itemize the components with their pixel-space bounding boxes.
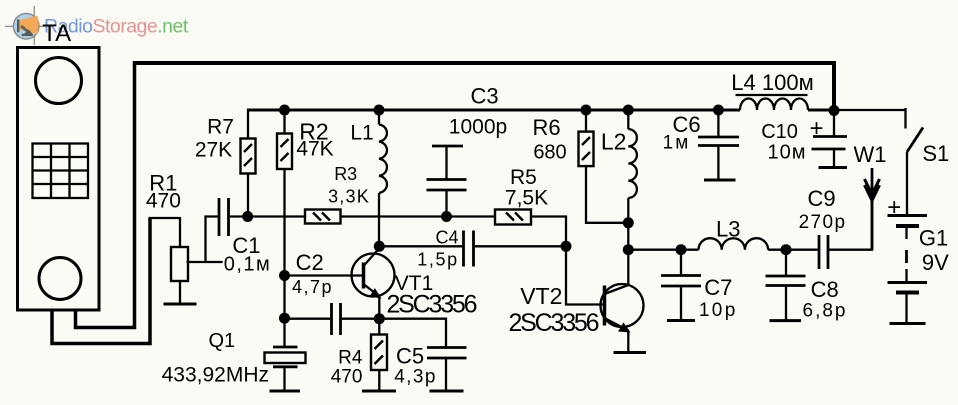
svg-text:27K: 27K <box>195 139 232 162</box>
svg-text:+: + <box>887 194 901 221</box>
capacitor C8 <box>766 250 806 321</box>
wire: R6 bottom to L2 column <box>586 166 628 223</box>
TA keypad grid <box>33 144 89 199</box>
logo orange wedge <box>19 16 39 34</box>
svg-text:C2: C2 <box>296 250 324 275</box>
capacitor C1 <box>219 198 229 236</box>
wire: L3 to C8 node <box>768 249 786 251</box>
logo base bar <box>17 19 19 32</box>
svg-text:470: 470 <box>146 190 181 213</box>
wire: R7 node to R3 <box>248 215 305 217</box>
svg-text:4,7p: 4,7p <box>292 277 333 297</box>
transistor VT1 <box>352 248 395 319</box>
wire: R3 to R5 <box>341 215 496 217</box>
ground C6 <box>704 179 736 182</box>
svg-text:R6: R6 <box>532 115 560 140</box>
inductor L2 <box>628 129 637 198</box>
switch S1 <box>906 108 924 216</box>
ground VT2 <box>614 351 647 354</box>
svg-text:W1: W1 <box>854 142 887 167</box>
wire: C7 node to L3 <box>681 249 699 251</box>
capacitor C7 <box>661 250 701 321</box>
wire: top rail to right column <box>133 63 834 110</box>
resistor R5 <box>495 210 531 225</box>
wire: +9V rail right of L4 <box>808 109 834 112</box>
svg-text:R4: R4 <box>338 347 363 368</box>
wire: C4 right <box>474 245 567 247</box>
capacitor C3 <box>427 146 467 217</box>
wire: C9 to antenna column <box>828 196 872 250</box>
wire: emitter node to C5 <box>379 319 446 348</box>
svg-text:7,5K: 7,5K <box>505 187 548 210</box>
svg-text:270p: 270p <box>799 212 847 233</box>
wire: R2 top lead <box>283 110 285 134</box>
ground C8 <box>770 319 802 322</box>
svg-text:R3: R3 <box>334 164 357 184</box>
wire: L2 bottom lead to VT2 collector <box>627 198 629 285</box>
resistor R1 <box>171 247 188 281</box>
wire: R7 top lead <box>247 109 249 139</box>
wire: crystal node to C2 <box>285 318 332 320</box>
svg-text:S1: S1 <box>922 141 949 166</box>
svg-text:C4: C4 <box>435 228 458 248</box>
svg-text:L4 100м: L4 100м <box>731 70 813 95</box>
resistor R6 <box>579 132 594 167</box>
node VT1 emitter <box>374 313 385 324</box>
capacitor C2 <box>332 303 341 335</box>
resistor R3 <box>305 210 341 224</box>
svg-text:L3: L3 <box>716 217 740 242</box>
ground R4 <box>362 390 396 393</box>
capacitor C5 <box>427 348 467 392</box>
logo circle <box>13 13 39 39</box>
wire: C2 to emitter node <box>341 318 380 320</box>
node VT1 base <box>279 270 290 281</box>
svg-text:Q1: Q1 <box>208 330 235 352</box>
svg-text:R7: R7 <box>207 116 234 139</box>
svg-text:+: + <box>809 115 823 142</box>
VT1 emitter arrow <box>370 288 382 299</box>
svg-text:680: 680 <box>533 142 566 164</box>
svg-text:C10: C10 <box>761 121 798 143</box>
node R6 top <box>581 105 592 116</box>
wire: R5 right down to C4 node <box>531 217 566 247</box>
svg-text:L2: L2 <box>601 129 627 155</box>
svg-text:VT2: VT2 <box>520 283 562 309</box>
ground C10 <box>819 166 848 169</box>
svg-text:433,92MHz: 433,92MHz <box>162 364 269 387</box>
svg-text:0,1м: 0,1м <box>224 254 272 276</box>
svg-text:1м: 1м <box>663 133 691 154</box>
node C4 R5 <box>561 241 572 252</box>
crystal Q1 <box>265 318 306 391</box>
wire: L1 top lead <box>378 110 380 125</box>
ground Q1 <box>270 390 301 393</box>
TA mouthpiece circle <box>39 258 81 300</box>
transistor VT2 <box>601 284 644 353</box>
node C8 top <box>781 244 792 255</box>
resistor R2 <box>277 134 292 170</box>
node L2 top <box>623 105 634 116</box>
wire: L1 bottom lead to VT1 collector node <box>378 193 380 246</box>
TA earpiece circle <box>36 58 82 104</box>
svg-text:C3: C3 <box>470 84 498 109</box>
wire: R1 bottom lead <box>179 281 181 304</box>
node VT1 collector <box>374 241 385 252</box>
inductor L3 <box>699 238 769 250</box>
node crystal top <box>279 313 290 324</box>
svg-text:2SC3356: 2SC3356 <box>508 309 598 337</box>
ground G1 <box>890 322 926 325</box>
battery G1 <box>888 216 928 324</box>
svg-text:C8: C8 <box>811 277 839 302</box>
node R7 bottom <box>242 211 253 222</box>
svg-text:C9: C9 <box>807 186 835 211</box>
capacitor C10 (polarized) <box>812 110 848 168</box>
node R2 top <box>279 105 290 116</box>
node L1 top <box>374 105 385 116</box>
svg-text:3,3K: 3,3K <box>328 187 370 207</box>
svg-text:9V: 9V <box>922 250 949 275</box>
node C6 top <box>713 105 724 116</box>
ground C5 <box>430 390 464 393</box>
ground R1 <box>164 303 197 306</box>
wire: R2 bottom lead down to crystal node <box>283 169 285 318</box>
wire: R1 top lead <box>179 217 181 247</box>
svg-text:10м: 10м <box>768 142 807 164</box>
node L4 right <box>829 105 840 116</box>
wire: C1 right to R7 node <box>228 215 248 217</box>
svg-text:2SC3356: 2SC3356 <box>386 291 476 319</box>
TA handset block <box>18 48 100 311</box>
svg-text:6,8p: 6,8p <box>803 301 848 322</box>
svg-text:L1: L1 <box>350 122 373 145</box>
resistor R4 <box>371 319 387 391</box>
svg-text:47K: 47K <box>296 138 333 161</box>
capacitor C6 <box>698 110 739 180</box>
resistor R7 <box>241 139 256 174</box>
wire: C4 left <box>379 245 463 247</box>
svg-text:470: 470 <box>331 367 363 388</box>
wire: C8 node to C9 <box>786 249 819 251</box>
logo arrow <box>21 26 29 32</box>
wire: to R1 top <box>149 217 181 219</box>
wire: VT2 node to C7 node <box>628 249 681 251</box>
capacitor C9 <box>819 235 828 269</box>
ground C7 <box>667 319 695 322</box>
wire: TA bottom loop to top rail <box>76 63 135 328</box>
svg-text:4,3p: 4,3p <box>394 367 437 388</box>
capacitor C4 <box>464 231 474 267</box>
svg-text:TA: TA <box>42 20 71 47</box>
svg-text:C7: C7 <box>704 275 732 300</box>
node R6 L2 <box>623 217 634 228</box>
inductor L4 <box>740 99 808 110</box>
wire: TA bottom loop to R1 <box>52 218 150 344</box>
antenna W1 <box>865 168 880 250</box>
wire: VT2 base feed <box>566 246 604 304</box>
inductor L1 <box>379 125 387 193</box>
svg-text:10p: 10p <box>699 300 738 321</box>
svg-text:G1: G1 <box>919 226 948 251</box>
wire: L2 top lead <box>627 110 629 129</box>
wire: R6 top lead <box>585 110 587 132</box>
node VT2 collector <box>623 244 634 255</box>
svg-text:1000p: 1000p <box>449 116 507 139</box>
wire: R7 bottom lead <box>247 174 249 217</box>
svg-text:C5: C5 <box>396 343 424 368</box>
wire: rail to switch S1 <box>834 109 906 111</box>
svg-text:1,5p: 1,5p <box>417 250 458 270</box>
wire: VT1 base wire <box>285 274 363 276</box>
wire: C1 left hook <box>206 217 219 263</box>
VT2 emitter arrow <box>618 323 631 333</box>
logo crosshair <box>5 6 47 45</box>
node C7 top <box>676 244 687 255</box>
wire: +9V rail left <box>248 109 740 112</box>
node C3 bottom <box>441 211 452 222</box>
L4 core line <box>736 94 808 96</box>
wire: R1 side stub <box>187 261 223 263</box>
